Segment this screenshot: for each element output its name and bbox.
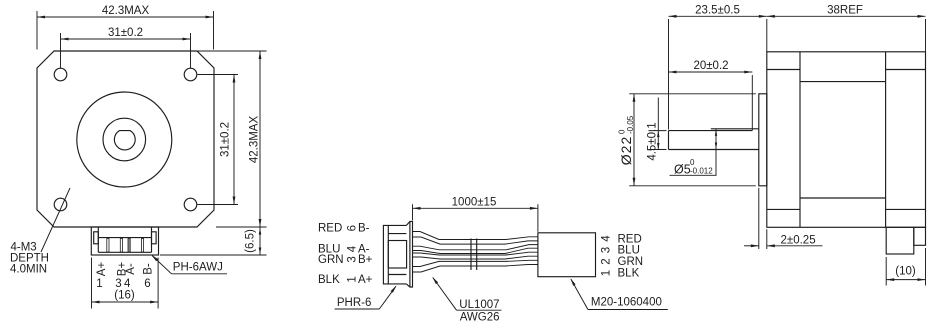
svg-text:BLK: BLK <box>318 274 340 286</box>
svg-text:31±0.2: 31±0.2 <box>108 27 143 39</box>
svg-text:B+: B+ <box>358 254 373 266</box>
svg-text:RED: RED <box>618 233 642 245</box>
svg-text:1000±15: 1000±15 <box>452 196 497 208</box>
svg-text:PH-6AWJ: PH-6AWJ <box>173 262 223 274</box>
wire GRN lower edge <box>413 256 538 259</box>
svg-text:4: 4 <box>347 245 359 252</box>
svg-text:B-: B- <box>142 263 154 275</box>
wire BLU upper edge <box>413 245 538 250</box>
connector latch left <box>94 232 99 244</box>
mounting hole bottom-left <box>54 198 67 211</box>
svg-text:PHR-6: PHR-6 <box>337 297 372 309</box>
connector PHR-6 housing <box>383 225 406 284</box>
PHR-6 inner cavity <box>388 241 406 269</box>
dimension 42.3MAX vertical <box>197 50 267 52</box>
dimension 23.5±0.5 <box>668 19 670 130</box>
dimension 4.5±0.1 flat height <box>649 130 667 132</box>
dimension 31±0.2 horizontal <box>60 33 62 68</box>
end cap chamfer line top right <box>886 69 926 71</box>
shaft circle D5 with flat <box>114 131 135 150</box>
dimension 2±0.25 boss thickness <box>758 188 760 249</box>
svg-text:3: 3 <box>115 278 121 290</box>
svg-text:1: 1 <box>347 276 359 282</box>
svg-text:(10): (10) <box>895 265 916 277</box>
rear end cap boundary <box>885 52 887 228</box>
svg-text:A-: A- <box>125 263 137 275</box>
stator stack top line <box>800 81 886 83</box>
connector pin 1 <box>107 239 109 253</box>
dimension 38REF <box>925 19 927 52</box>
svg-text:UL1007: UL1007 <box>459 299 499 311</box>
connector pin 4 <box>128 239 130 253</box>
end cap chamfer line top left <box>767 69 800 71</box>
mounting hole bottom-right <box>184 198 197 211</box>
dimension 42.3MAX horizontal <box>36 11 38 50</box>
svg-text:BLU: BLU <box>618 245 640 257</box>
connector latch right <box>152 232 157 244</box>
svg-text:-0.012: -0.012 <box>690 167 713 176</box>
wire BLK lower edge <box>413 265 538 273</box>
svg-text:-0.05: -0.05 <box>626 115 635 134</box>
wire GRN upper edge <box>413 252 538 255</box>
wire RED lower edge <box>413 237 538 244</box>
svg-text:(16): (16) <box>114 289 135 301</box>
pilot boss side view <box>759 94 767 186</box>
svg-text:AWG26: AWG26 <box>460 312 500 324</box>
svg-text:1: 1 <box>96 278 102 290</box>
svg-text:20±0.2: 20±0.2 <box>693 60 728 72</box>
svg-text:A+: A+ <box>96 262 108 277</box>
dimension 1000±15 <box>412 204 414 220</box>
end cap chamfer line bottom right <box>886 208 926 210</box>
cable break marks <box>470 239 472 271</box>
dimension 20±0.2 shaft length <box>751 75 753 130</box>
svg-text:4.5±0.1: 4.5±0.1 <box>647 122 659 160</box>
mounting hole top-left <box>54 68 67 81</box>
svg-text:Ø22: Ø22 <box>618 136 634 165</box>
svg-text:3: 3 <box>347 256 359 262</box>
wire BLU lower edge <box>413 248 538 253</box>
leader line to mounting hole <box>41 188 70 252</box>
svg-text:3: 3 <box>601 247 613 253</box>
dimension (10) rear connector <box>885 257 887 286</box>
svg-text:B-: B- <box>358 223 370 235</box>
PHR-6 flange <box>406 221 412 287</box>
svg-text:Ø5: Ø5 <box>674 163 691 177</box>
dimension (16) connector width <box>91 258 93 309</box>
svg-text:6: 6 <box>347 225 359 231</box>
svg-text:(6.5): (6.5) <box>244 229 256 253</box>
svg-text:6: 6 <box>144 278 150 290</box>
svg-text:4.0MIN: 4.0MIN <box>10 263 47 275</box>
label D22 with tolerance rotated <box>618 115 636 165</box>
svg-text:4: 4 <box>124 278 131 290</box>
connector pin 3 <box>120 239 122 253</box>
wire RED upper edge <box>413 232 538 240</box>
svg-text:1: 1 <box>601 270 613 276</box>
svg-text:BLK: BLK <box>618 268 640 280</box>
svg-text:2±0.25: 2±0.25 <box>781 235 816 247</box>
connector housing PH front view <box>91 227 158 255</box>
svg-text:0: 0 <box>690 158 695 167</box>
svg-text:GRN: GRN <box>618 256 644 268</box>
svg-text:A+: A+ <box>358 274 373 286</box>
stator stack bottom line <box>800 197 886 199</box>
svg-text:42.3MAX: 42.3MAX <box>249 116 261 164</box>
motor body front view outline <box>37 51 214 227</box>
svg-text:42.3MAX: 42.3MAX <box>102 5 150 17</box>
connector pin 6 <box>141 239 143 253</box>
wire BLK upper edge <box>413 260 538 266</box>
rear connector housing side view <box>886 227 914 254</box>
svg-text:GRN: GRN <box>318 254 344 266</box>
connector cavity walls <box>97 227 99 252</box>
svg-text:31±0.2: 31±0.2 <box>220 122 232 157</box>
rear connector latch <box>914 227 926 245</box>
end cap chamfer line bottom left <box>767 208 800 210</box>
bearing boss circle <box>103 118 146 161</box>
svg-text:38REF: 38REF <box>827 5 863 17</box>
dimension D22 boss diameter <box>629 93 756 95</box>
svg-text:2: 2 <box>601 258 613 264</box>
svg-text:23.5±0.5: 23.5±0.5 <box>695 5 740 17</box>
connector M20 housing <box>538 233 596 277</box>
svg-text:M20-1060400: M20-1060400 <box>591 297 662 309</box>
shaft side view <box>669 130 753 132</box>
mounting hole top-right <box>184 68 197 81</box>
motor body side view outline <box>767 52 926 228</box>
pilot boss circle D22 <box>77 92 172 187</box>
dimension 31±0.2 vertical <box>198 74 239 76</box>
svg-text:RED: RED <box>318 223 342 235</box>
front end cap boundary <box>799 52 801 228</box>
svg-text:4: 4 <box>601 235 613 242</box>
dimension (6.5) connector height <box>160 254 267 256</box>
dimension D5 shaft diameter with leader <box>715 129 717 176</box>
